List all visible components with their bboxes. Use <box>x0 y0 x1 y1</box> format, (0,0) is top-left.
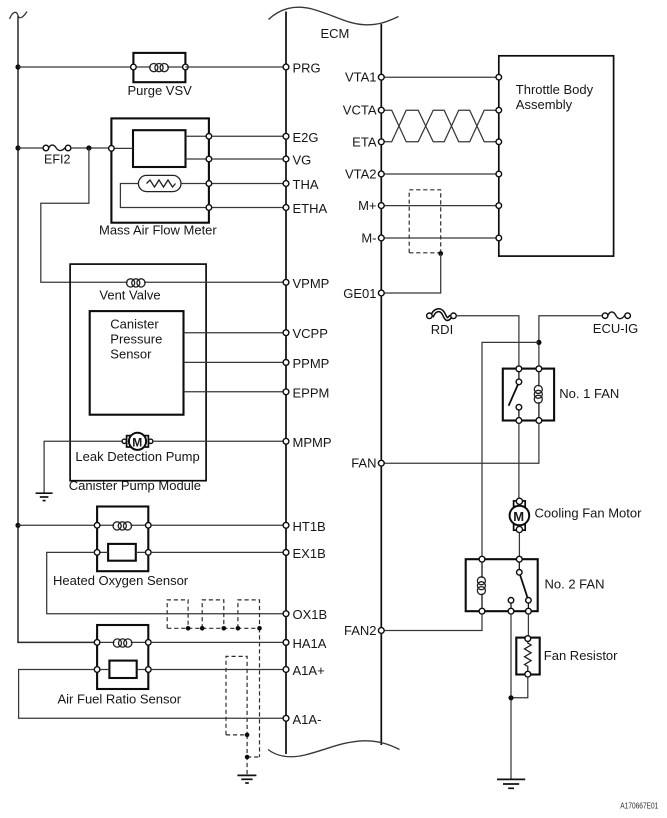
motor Leak Detection Pump <box>122 433 153 450</box>
wire M- <box>384 237 496 239</box>
wire bus to fuse EFI2 <box>18 147 44 149</box>
pin TB ETA <box>496 139 502 145</box>
box Canister Pressure Sensor <box>90 311 184 415</box>
pin PRG <box>283 64 289 70</box>
bus top break squiggle <box>10 12 28 20</box>
box Heated Oxygen Sensor <box>97 507 148 572</box>
pin VPMP <box>283 279 289 285</box>
svg-text:EFI2: EFI2 <box>44 153 70 167</box>
svg-text:VCTA: VCTA <box>343 103 377 118</box>
ground at canister pump module <box>36 493 53 500</box>
pin E2G <box>283 133 289 139</box>
svg-text:PPMP: PPMP <box>293 356 330 371</box>
relay1 coil <box>538 369 540 421</box>
node shield common drain <box>245 755 250 760</box>
wire relay1 to FAN pin <box>384 423 539 463</box>
node shield A1A drain <box>245 733 250 738</box>
box Fan Resistor <box>516 638 539 675</box>
pins AFR sensor <box>94 640 100 646</box>
coil of Purge VSV <box>133 66 185 68</box>
svg-text:A1A-: A1A- <box>293 712 322 727</box>
ECM right boundary line <box>380 24 382 745</box>
wire leak detection pump to ground <box>44 441 127 492</box>
svg-text:VCPP: VCPP <box>293 326 328 341</box>
box Mass Air Flow Meter <box>111 118 208 222</box>
svg-text:VTA1: VTA1 <box>345 70 377 85</box>
wire relay2 NC contact to fan resistor <box>527 614 529 636</box>
wire HOS to EX1B <box>151 551 283 553</box>
nodes on OX1B shield drain <box>186 626 191 631</box>
wire bus corner to air fuel ratio sensor <box>18 641 97 644</box>
resistor zigzag <box>525 639 532 674</box>
pin OX1B <box>283 611 289 617</box>
pin GE01 <box>378 290 384 296</box>
wire ECU-IG to relay 1 <box>539 316 602 367</box>
pin MPMP <box>283 438 289 444</box>
wire thermistor to THA circle <box>181 183 209 185</box>
wire MAF to E2G <box>212 135 284 137</box>
pin A1A- <box>283 715 289 721</box>
svg-text:M+: M+ <box>358 198 376 213</box>
wire MAF to THA <box>212 183 284 185</box>
shield dashes over M+/M- wires <box>409 190 441 253</box>
relay1 pins <box>516 366 522 372</box>
wire relay2 NO contact to ground <box>510 614 512 779</box>
relay1 switch <box>518 369 520 421</box>
wire EFI2 junction down to vent valve <box>41 148 128 282</box>
pin VG <box>283 156 289 162</box>
wire VTA2 <box>384 173 496 175</box>
pin Purge VSV right <box>183 64 189 70</box>
coil heater of HOS <box>97 524 148 526</box>
node: EFI2 output junction <box>86 145 91 150</box>
wire M+ <box>384 205 496 207</box>
pins HOS <box>94 523 100 529</box>
relay2 pins <box>479 556 485 562</box>
svg-text:RDI: RDI <box>431 322 453 337</box>
wire MAF pin to inner box <box>111 147 133 149</box>
wire sensor to VCPP <box>184 332 284 334</box>
svg-text:A1A+: A1A+ <box>293 663 325 678</box>
svg-text:Vent Valve: Vent Valve <box>99 288 160 303</box>
pin ETA <box>378 139 384 145</box>
wire fan resistor to ground node <box>511 677 528 698</box>
wire MAF to ETHA <box>212 207 284 209</box>
wire VTA1 <box>384 76 496 78</box>
wire HOS to OX1B <box>47 552 284 613</box>
thermistor of MAF <box>138 175 181 191</box>
node ECU-IG branch <box>536 340 541 345</box>
svg-text:Assembly: Assembly <box>516 97 573 112</box>
svg-text:M: M <box>132 435 142 449</box>
svg-text:VPMP: VPMP <box>293 276 330 291</box>
svg-text:FAN2: FAN2 <box>344 623 377 638</box>
pin MAF THA <box>206 181 212 187</box>
wire sensor to PPMP <box>184 361 284 363</box>
shield dashes over OX1B wire <box>167 600 259 757</box>
wire branch to No.2 fan relay coil <box>482 342 539 556</box>
relay No. 1 FAN box <box>503 369 554 421</box>
svg-text:Sensor: Sensor <box>110 347 152 362</box>
pin MAF VG <box>206 156 212 162</box>
svg-text:ECM: ECM <box>321 26 350 41</box>
ECM bottom break wave <box>268 741 400 757</box>
relay No. 2 FAN box <box>466 559 538 611</box>
ground at cooling fan <box>497 779 525 788</box>
svg-text:FAN: FAN <box>351 456 376 471</box>
pin Purge VSV left <box>131 64 137 70</box>
wire motor to relay 2 <box>518 533 520 557</box>
svg-text:Mass Air Flow Meter: Mass Air Flow Meter <box>99 223 217 238</box>
wire vent valve to VPMP <box>145 281 284 283</box>
ECM left boundary line <box>285 12 287 755</box>
svg-text:OX1B: OX1B <box>293 607 328 622</box>
svg-text:Heated Oxygen Sensor: Heated Oxygen Sensor <box>53 573 189 588</box>
ECM top break wave <box>269 7 399 25</box>
svg-text:Leak Detection Pump: Leak Detection Pump <box>75 449 199 464</box>
svg-text:M-: M- <box>361 231 376 246</box>
wire sensor to EPPM <box>184 391 284 393</box>
inner sensing element of HOS <box>108 544 136 561</box>
shield dashes over A1A wires <box>226 656 260 775</box>
box Air Fuel Ratio Sensor <box>97 625 148 689</box>
wire bus to heated oxygen sensor heater <box>18 524 97 526</box>
fuse EFI2 <box>43 145 49 151</box>
pins fan resistor <box>525 636 531 642</box>
inner sensing element of AFR sensor <box>109 661 136 678</box>
svg-text:Cooling Fan Motor: Cooling Fan Motor <box>535 506 643 521</box>
fuse ECU-IG <box>602 312 630 319</box>
svg-text:EPPM: EPPM <box>293 385 330 400</box>
node: bus to EFI2 junction <box>15 145 20 150</box>
wire bus to Purge VSV <box>18 66 133 68</box>
svg-text:Purge VSV: Purge VSV <box>128 83 193 98</box>
svg-text:GE01: GE01 <box>343 286 376 301</box>
pin EPPM <box>283 389 289 395</box>
svg-text:A170667E01: A170667E01 <box>620 802 658 811</box>
svg-text:E2G: E2G <box>293 130 319 145</box>
relay2 switch <box>511 559 528 611</box>
svg-text:VG: VG <box>293 153 312 168</box>
wire AFR to A1A+ <box>151 669 283 671</box>
pin FAN2 <box>378 628 384 634</box>
box Throttle Body Assembly <box>499 56 614 256</box>
pin TB VTA1 <box>496 74 502 80</box>
svg-text:MPMP: MPMP <box>293 435 332 450</box>
pin TB VCTA <box>496 107 502 113</box>
svg-text:ETA: ETA <box>352 134 377 149</box>
svg-text:HT1B: HT1B <box>293 519 326 534</box>
pin TB VTA2 <box>496 171 502 177</box>
pin ETHA <box>283 205 289 211</box>
inner sensor box of MAF <box>133 130 186 167</box>
svg-text:ETHA: ETHA <box>293 201 328 216</box>
pin EX1B <box>283 550 289 556</box>
pin VTA1 <box>378 74 384 80</box>
node shield M drain <box>438 251 443 256</box>
pin VCPP <box>283 330 289 336</box>
pin MAF E2G <box>206 134 212 140</box>
svg-text:No. 2 FAN: No. 2 FAN <box>545 577 605 592</box>
pin TB M+ <box>496 203 502 209</box>
pin HA1A <box>283 640 289 646</box>
svg-text:Canister: Canister <box>110 317 159 332</box>
wire MAF to VG <box>212 158 284 160</box>
coil heater of AFR sensor <box>97 641 148 643</box>
svg-text:Canister Pump Module: Canister Pump Module <box>69 478 201 493</box>
pin A1A+ <box>283 667 289 673</box>
motor Cooling Fan Motor <box>510 498 530 532</box>
left supply bus <box>17 16 19 642</box>
svg-text:Air Fuel Ratio Sensor: Air Fuel Ratio Sensor <box>58 692 182 707</box>
svg-text:M: M <box>513 509 524 524</box>
svg-text:ECU-IG: ECU-IG <box>593 321 639 336</box>
svg-text:HA1A: HA1A <box>293 636 327 651</box>
pin VCTA <box>378 107 384 113</box>
wire fuse EFI2 to MAF <box>70 147 111 149</box>
twisted pair VCTA/ETA <box>384 110 500 142</box>
node: bus to Purge VSV junction <box>15 64 20 69</box>
wire RDI to relay 1 <box>456 316 519 366</box>
relay2 coil <box>481 559 483 611</box>
wire inner box to VG circle <box>186 158 209 160</box>
pin MAF left <box>109 146 115 152</box>
svg-text:Throttle Body: Throttle Body <box>516 82 594 97</box>
wire element leads AFR <box>97 669 148 671</box>
pin TB M- <box>496 235 502 241</box>
pin FAN <box>378 460 384 466</box>
svg-text:Pressure: Pressure <box>110 332 162 347</box>
node fan ground <box>508 695 513 700</box>
pin M- <box>378 235 384 241</box>
wire inner box to E2G circle <box>186 135 209 137</box>
box Canister Pump Module <box>70 264 206 481</box>
solenoid Purge VSV box <box>133 53 185 82</box>
wire AFR to HA1A <box>151 641 283 643</box>
svg-text:THA: THA <box>293 177 319 192</box>
coil Vent Valve <box>126 279 145 287</box>
wire thermistor to ETHA circle <box>120 184 208 208</box>
wire shield drain to GE01 <box>384 254 441 294</box>
wire relay2 to FAN2 pin <box>384 614 482 630</box>
pin MAF ETHA <box>206 205 212 211</box>
wire element leads HOS <box>97 551 148 553</box>
fusible link RDI <box>427 310 457 319</box>
svg-text:EX1B: EX1B <box>293 546 326 561</box>
wire Purge VSV to PRG <box>185 66 283 68</box>
ground at sensor shield <box>237 775 256 783</box>
svg-text:No. 1 FAN: No. 1 FAN <box>559 386 619 401</box>
svg-text:VTA2: VTA2 <box>345 167 377 182</box>
pin THA <box>283 181 289 187</box>
pin VTA2 <box>378 171 384 177</box>
svg-text:PRG: PRG <box>293 61 321 76</box>
svg-text:Fan Resistor: Fan Resistor <box>544 648 618 663</box>
pin PPMP <box>283 360 289 366</box>
node: bus to HT1B junction <box>15 523 20 528</box>
wire pump to MPMP <box>153 440 283 442</box>
wire AFR to A1A- <box>19 670 284 719</box>
wire HOS to HT1B <box>151 524 283 526</box>
wire relay1 to cooling fan motor <box>518 423 520 498</box>
pin HT1B <box>283 522 289 528</box>
pin M+ <box>378 203 384 209</box>
